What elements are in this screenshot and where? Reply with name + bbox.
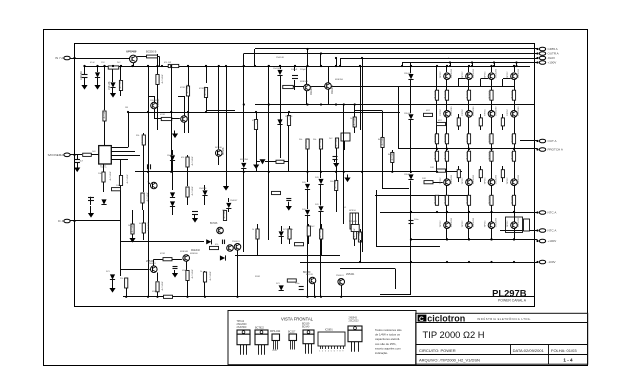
svg-text:2SC5200: 2SC5200 [473,217,475,227]
svg-text:0R22/5W: 0R22/5W [445,91,447,99]
svg-text:2SC5200: 2SC5200 [496,106,498,116]
svg-text:CIRCUITO: POWER: CIRCUITO: POWER [419,348,456,353]
svg-text:IC5891: IC5891 [325,329,333,332]
svg-text:RG-06: RG-06 [330,181,337,183]
svg-text:SPK10: SPK10 [349,210,357,212]
svg-text:MJE340: MJE340 [310,86,313,95]
svg-text:1: 1 [319,351,320,353]
svg-text:4k7 1/4W: 4k7 1/4W [120,80,122,89]
svg-text:2SC5200: 2SC5200 [451,174,453,184]
svg-text:S/FONEMA: S/FONEMA [48,153,64,157]
svg-text:6: 6 [334,351,335,353]
svg-text:capacitores eletróli-: capacitores eletróli- [375,337,400,341]
svg-text:TIP35C: TIP35C [440,108,442,115]
svg-text:0R22/5W: 0R22/5W [512,134,514,142]
svg-text:0R22/5W: 0R22/5W [435,134,437,142]
svg-text:de 1/4W e todos os: de 1/4W e todos os [375,333,400,337]
svg-text:TIP35C: TIP35C [484,71,486,78]
svg-text:10R: 10R [422,178,426,180]
svg-text:MPSA92: MPSA92 [349,220,358,223]
svg-text:ciclotron: ciclotron [427,313,465,323]
svg-text:MJE350: MJE350 [331,85,334,94]
svg-text:4k7 1/4W: 4k7 1/4W [192,157,194,166]
svg-text:C: C [419,316,424,323]
svg-text:MJE340: MJE340 [180,251,189,253]
svg-text:1N4148: 1N4148 [273,68,281,70]
svg-text:1N4148: 1N4148 [285,116,293,118]
svg-text:TIP35C: TIP35C [507,108,509,115]
svg-text:2SC5200: 2SC5200 [473,68,475,78]
svg-text:2N5401: 2N5401 [187,112,190,121]
svg-text:0R22/5W: 0R22/5W [512,152,514,160]
svg-text:4k7 1/4W: 4k7 1/4W [162,75,164,84]
svg-text:4: 4 [328,351,329,353]
svg-text:2N5401: 2N5401 [157,98,160,107]
svg-text:2SC5200: 2SC5200 [518,217,520,227]
svg-text:0R22/5W: 0R22/5W [445,152,447,160]
svg-text:TIP35C: TIP35C [507,220,509,227]
svg-text:ARQUIVO: /TIP2000_H2_V1/DSN: ARQUIVO: /TIP2000_H2_V1/DSN [419,358,480,363]
svg-text:4k7 1/4W: 4k7 1/4W [192,187,194,196]
svg-text:TIP35C: TIP35C [440,71,442,78]
svg-text:4k7 1/4W: 4k7 1/4W [104,110,106,119]
svg-text:IC 4: IC 4 [58,219,64,223]
svg-text:2SC2023: 2SC2023 [349,320,360,323]
svg-text:4k7 1/4W: 4k7 1/4W [382,137,384,146]
svg-text:0R22/5W: 0R22/5W [489,196,491,204]
svg-text:2SC5200: 2SC5200 [518,68,520,78]
svg-text:4k7 1/4W: 4k7 1/4W [192,270,194,279]
svg-text:BC546: BC546 [222,147,225,155]
svg-text:IN 7 A: IN 7 A [55,56,63,60]
svg-text:MPSA18: MPSA18 [128,50,137,53]
svg-text:470R: 470R [199,88,204,90]
svg-text:2SC5200: 2SC5200 [451,217,453,227]
svg-text:4k7 1/4W: 4k7 1/4W [110,172,112,181]
svg-text:BD140: BD140 [302,326,310,329]
svg-text:4k7 1/4W: 4k7 1/4W [187,85,189,94]
svg-text:5: 5 [331,351,332,353]
svg-text:15V: 15V [101,62,105,64]
svg-text:4k7 1/4W: 4k7 1/4W [142,135,144,144]
svg-text:470R: 470R [160,253,165,255]
svg-text:0R22/5W: 0R22/5W [489,91,491,99]
svg-text:exceto aqueles com: exceto aqueles com [375,346,401,350]
svg-text:MJE340: MJE340 [191,249,200,252]
svg-text:2SC5200: 2SC5200 [496,68,498,78]
svg-text:NTC A: NTC A [548,211,557,215]
svg-text:2SC5200: 2SC5200 [473,106,475,116]
svg-text:1N5404: 1N5404 [404,174,412,176]
svg-text:TIP 2000 Ω2 H: TIP 2000 Ω2 H [423,329,485,340]
svg-text:1N5404: 1N5404 [404,113,412,115]
svg-text:2SC5200: 2SC5200 [451,68,453,78]
svg-text:TIP35C: TIP35C [462,71,464,78]
svg-text:Todos resistores são: Todos resistores são [375,328,402,332]
svg-text:2N5401: 2N5401 [150,100,158,102]
svg-text:4k7 1/4W: 4k7 1/4W [162,282,164,291]
svg-text:2N5401: 2N5401 [232,241,240,243]
svg-text:1N4148: 1N4148 [108,81,111,90]
svg-text:0R22/5W: 0R22/5W [467,152,469,160]
svg-text:4k7 1/4W: 4k7 1/4W [205,87,207,96]
svg-text:1N4148: 1N4148 [199,188,207,190]
svg-text:TIP35C: TIP35C [440,220,442,227]
svg-text:0R22/5W: 0R22/5W [435,152,437,160]
svg-text:MJE340: MJE340 [190,253,198,255]
svg-text:PL297B: PL297B [492,288,527,299]
svg-text:4k7 1/4W: 4k7 1/4W [147,193,149,202]
svg-text:C4B5 A: C4B5 A [548,47,558,51]
svg-text:1N5404: 1N5404 [404,73,412,75]
svg-text:2SC5200: 2SC5200 [473,174,475,184]
svg-text:TIP35C: TIP35C [462,220,464,227]
svg-text:2N5401: 2N5401 [148,263,156,265]
svg-text:10R: 10R [430,167,434,169]
svg-text:2N5401: 2N5401 [336,275,344,277]
svg-text:1M: 1M [125,107,128,109]
svg-text:1 - 4: 1 - 4 [563,357,573,362]
svg-text:PROTCH A: PROTCH A [548,148,563,152]
svg-text:+100V: +100V [548,61,557,65]
svg-text:4k7 1/4W: 4k7 1/4W [210,272,212,281]
svg-text:BC550 B: BC550 B [146,50,157,54]
svg-text:470R: 470R [180,87,185,89]
svg-text:4k7 1/4W: 4k7 1/4W [320,229,322,238]
svg-text:7: 7 [337,351,338,353]
svg-text:0R22/5W: 0R22/5W [435,91,437,99]
svg-text:100pF: 100pF [291,69,298,71]
svg-text:0R22/5W: 0R22/5W [467,134,469,142]
svg-text:0R22/5W: 0R22/5W [512,196,514,204]
svg-text:TIP35C: TIP35C [484,220,486,227]
svg-text:120pF: 120pF [300,69,307,71]
svg-text:2SJC500: 2SJC500 [237,326,248,329]
svg-text:47uF: 47uF [90,62,95,64]
svg-text:NTC A: NTC A [548,229,557,233]
svg-text:BC327: BC327 [288,331,296,334]
svg-text:0R47: 0R47 [152,291,158,293]
svg-text:TIP35C: TIP35C [462,108,464,115]
svg-text:0R22/5W: 0R22/5W [435,196,437,204]
svg-text:DATA:02/09/2001: DATA:02/09/2001 [513,348,545,353]
svg-text:0R22/5W: 0R22/5W [489,134,491,142]
svg-text:+100V: +100V [548,239,557,243]
svg-text:470R: 470R [160,114,165,116]
svg-text:9: 9 [342,351,343,353]
svg-text:TIP35C: TIP35C [462,177,464,184]
svg-text:4k7 1/4W: 4k7 1/4W [148,223,150,232]
svg-text:47k 1W: 47k 1W [164,62,171,64]
svg-text:MPS-A92: MPS-A92 [270,330,281,333]
svg-text:330R: 330R [255,276,260,278]
svg-text:ECB: ECB [273,350,278,352]
svg-text:TIP35C: TIP35C [440,177,442,184]
svg-text:3: 3 [325,351,326,353]
svg-text:BD139: BD139 [306,274,313,276]
svg-text:BC546: BC546 [210,222,218,225]
svg-text:0R22/5W: 0R22/5W [489,152,491,160]
svg-text:TIP35C: TIP35C [507,177,509,184]
svg-text:FOLHA: 01/03: FOLHA: 01/03 [551,348,577,353]
svg-text:0R22/5W: 0R22/5W [445,196,447,204]
svg-text:1N4148: 1N4148 [276,57,284,59]
svg-text:2SC5200: 2SC5200 [518,106,520,116]
svg-text:0R22/5W: 0R22/5W [467,91,469,99]
svg-text:NTC: NTC [356,233,361,235]
svg-text:2SC5200: 2SC5200 [496,174,498,184]
svg-text:VISTA FRONTAL: VISTA FRONTAL [281,317,314,322]
svg-text:TIP35C: TIP35C [484,177,486,184]
svg-text:4k7 1/4W: 4k7 1/4W [256,229,258,238]
svg-text:2SC5200: 2SC5200 [451,106,453,116]
svg-text:MJE340: MJE340 [300,81,309,83]
svg-text:MJE350: MJE350 [240,159,249,161]
svg-text:JG0V: JG0V [548,56,556,60]
svg-text:4k7 1/4W: 4k7 1/4W [354,117,356,126]
svg-text:8: 8 [340,351,341,353]
svg-text:OUT A: OUT A [548,139,557,143]
svg-text:2SC5200: 2SC5200 [496,217,498,227]
svg-text:2N5401: 2N5401 [346,273,355,276]
svg-text:4k7 1/4W: 4k7 1/4W [392,152,394,161]
svg-text:4k7 1/4W: 4k7 1/4W [132,224,134,233]
svg-text:POWER CANAL A: POWER CANAL A [498,299,527,303]
svg-text:OUTR A: OUTR A [548,52,559,56]
svg-text:4k7 1/4W: 4k7 1/4W [306,139,308,148]
svg-text:0R47: 0R47 [182,270,188,272]
svg-text:0R22/5W: 0R22/5W [467,196,469,204]
svg-text:TIP35C: TIP35C [484,108,486,115]
svg-text:0R22/5W: 0R22/5W [512,91,514,99]
svg-text:indicação.: indicação. [375,351,388,355]
svg-text:4k7 1/4W: 4k7 1/4W [336,138,338,147]
svg-text:BCT822: BCT822 [255,327,264,330]
svg-text:cos são de 25%,: cos são de 25%, [375,342,397,346]
svg-text:100n/63: 100n/63 [80,71,83,80]
svg-text:4k7 1/4W: 4k7 1/4W [288,229,290,238]
svg-text:4k7 1/4W: 4k7 1/4W [320,139,322,148]
svg-text:MJE350: MJE350 [335,79,344,81]
svg-text:2SC5200: 2SC5200 [518,174,520,184]
svg-text:TIP35C: TIP35C [507,71,509,78]
svg-text:4k7 1/4W: 4k7 1/4W [127,175,129,184]
svg-text:2: 2 [322,351,323,353]
svg-text:-100V: -100V [548,260,556,264]
svg-text:0R22/5W: 0R22/5W [445,134,447,142]
svg-text:1N4007: 1N4007 [230,200,238,202]
svg-text:1N4148: 1N4148 [167,155,175,157]
